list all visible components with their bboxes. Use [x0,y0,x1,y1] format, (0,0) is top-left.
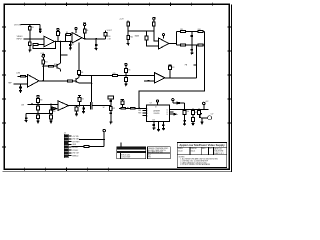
svg-text:R33: R33 [53,111,56,113]
ground [201,122,204,124]
resistor R22 [43,65,48,67]
IC bottom pin capacitor C15 [162,122,165,129]
ground [75,114,78,116]
pin 8 [65,155,68,157]
resistor R15 [180,30,185,32]
pin 1 [65,135,68,137]
wire U1B output [82,38,106,39]
svg-text:R26: R26 [128,70,131,72]
svg-text:+12V: +12V [205,101,209,103]
resistor R6 [83,29,86,33]
wire [24,38,45,40]
svg-text:LM1889: LM1889 [153,111,160,113]
svg-text:C2: C2 [72,44,74,46]
wire long video bus [79,75,155,77]
wire [127,39,129,43]
resistor R31 [37,104,39,106]
ground [127,44,130,46]
wire bottom edge [176,44,204,46]
IC bottom pin capacitor C14 [153,122,156,128]
pin 4 [65,143,68,145]
svg-text:C17: C17 [211,114,214,116]
svg-text:P/N: P/N [148,156,151,158]
resistor R40 [121,107,126,109]
power V5 [163,34,165,36]
svg-text:5 6 8: 5 6 8 [152,119,155,121]
capacitor C9 [25,114,28,121]
ground [19,91,22,93]
resistor R44 [192,109,194,110]
resistor R21 [42,60,45,64]
pin 7 [65,152,68,154]
wire [127,26,129,36]
wire [154,26,159,41]
border ticks left [2,27,6,147]
wire [127,21,129,22]
wire rail2 [26,113,51,115]
ground [124,84,127,86]
wire [18,75,21,77]
svg-text:R24: R24 [81,72,84,74]
svg-text:RF2: RF2 [138,113,141,115]
resistor R26 [125,68,128,72]
resistor R33 [50,104,52,110]
ground [37,121,40,123]
wire U1 output [55,41,73,43]
svg-text:C ECO 0587: C ECO 0587 [121,157,130,159]
junction [37,104,39,106]
revision table [117,147,146,159]
capacitor C7 into U5 [144,80,154,82]
resistor R25 series on bus [112,75,117,77]
parts note box [148,147,171,159]
resistor R35 pullup [78,96,81,98]
resistor R46 [198,109,200,110]
wire pin2 to power [79,138,104,140]
resistor R17 [180,44,185,46]
op-amp U5 [155,73,165,83]
svg-text:R45: R45 [195,112,198,114]
svg-text:UNLESS OTHERWISE SPEC.: UNLESS OTHERWISE SPEC. [148,148,169,150]
svg-text:VID GND: VID GND [72,139,80,141]
svg-text:+5V VID: +5V VID [72,136,79,138]
ground [50,121,53,123]
junction [43,65,45,67]
resistor R23 [68,80,73,82]
wire bus [128,30,154,32]
svg-text:R6: R6 [86,30,88,32]
power V14 [103,129,105,131]
power V1 [57,28,59,30]
title block [177,142,227,167]
resistor R11 [127,22,130,26]
svg-text:R16: R16 [198,29,201,31]
feedback box network [176,31,204,44]
svg-text:R5: R5 [66,32,68,34]
resistor R2 [28,42,31,46]
resistor R43 [184,109,186,110]
ground [39,31,41,34]
svg-text:R25: R25 [113,73,116,75]
capacitor C2 [69,42,72,49]
IC left pins [143,111,147,116]
junction [184,109,186,111]
svg-text:RF1: RF1 [138,110,141,112]
svg-text:NOTES:: NOTES: [179,157,185,159]
junction [60,41,62,43]
wire [73,80,77,82]
power V4 [153,18,155,20]
svg-text:SH 1: SH 1 [209,148,212,150]
capacitor C12 [110,99,113,106]
resistor R14 [146,31,148,36]
power arrow with resistor R42 [121,100,124,101]
resistor R13 [152,22,155,26]
wire top edge [176,30,204,32]
pin 5 [65,146,68,148]
diode D1 [173,102,177,104]
op-amp U6 [58,101,68,110]
junction [29,24,31,26]
buffer wedge [51,107,57,110]
revision table stub [120,142,122,147]
wire Q2 emitter to bus [79,82,91,84]
IC bottom pin ground [158,122,160,130]
paper edge bottom [3,171,232,173]
ground [183,124,186,126]
svg-text:CRT RET: CRT RET [72,141,79,143]
svg-text:R22: R22 [54,64,57,66]
wire U4 output [39,80,68,82]
transistor Q2 [75,78,77,83]
junction [153,30,155,32]
wire B long return [139,45,204,109]
IC top pin power V11 [157,100,159,102]
resistor R12 [127,36,130,40]
capacitor C16 [183,114,186,123]
resistor R45 [192,114,194,117]
sheet border [4,4,229,169]
power V8 [125,63,127,65]
junction [55,41,57,43]
junction [78,75,80,77]
op-amp U4 [28,75,39,87]
resistor R34 [50,114,52,115]
pin 3 [65,141,68,143]
wire U6 output [69,105,91,107]
resistor R41 [131,107,136,109]
junction [84,38,86,40]
svg-text:VID OUT: VID OUT [72,153,79,155]
svg-text:R12: R12 [130,36,133,38]
resistor R7 [105,36,107,39]
svg-text:R4: R4 [59,33,61,35]
wire U3 output [169,43,177,45]
svg-text:DWG NO: DWG NO [191,148,198,150]
wire vertical drop [91,76,93,102]
border ticks bottom [25,168,108,171]
svg-text:062-01: 062-01 [191,150,196,152]
power V2 [75,28,77,30]
capacitor C11 big series [90,102,92,109]
resistor R1 [28,26,31,30]
svg-text:B ECO 0241: B ECO 0241 [121,154,130,156]
IC right pins [170,109,177,114]
svg-text:R1: R1 [32,27,34,29]
resistor R36 [75,106,77,108]
svg-text:INPUT: INPUT [17,38,24,40]
resistor R4 [57,32,60,36]
capacitor C10 [82,106,85,112]
svg-text:R10: R10 [108,36,111,38]
junction [50,113,52,115]
svg-text:R30: R30 [40,100,43,102]
wire feedback loop [33,42,55,49]
svg-text:R37: R37 [112,108,115,110]
ground [192,123,195,125]
svg-text:HSYNC: HSYNC [72,147,79,149]
wire A up to box [195,45,197,78]
wire [147,40,159,46]
border ticks right [228,27,231,123]
resistor R50 [84,146,89,148]
svg-text:VOUT: VOUT [107,30,113,32]
transistor Q1 [56,64,58,69]
power V13 [203,102,205,104]
wire [21,24,41,26]
capacitor C1 [39,25,42,32]
svg-text:LUM: LUM [16,72,20,74]
wire rail1 with series capacitor C8 [27,103,58,105]
wire [29,25,31,39]
wire [13,83,27,85]
resistor R37 [109,107,112,111]
power V12 [172,99,174,101]
resistor R5 series [65,35,67,42]
junction [127,108,129,110]
wire U5 output [165,77,197,79]
svg-text:051-03: 051-03 [178,150,183,152]
transistor Q3 [199,114,201,118]
paper edge right [230,5,232,172]
junction [127,30,129,32]
svg-text:C16: C16 [186,111,189,113]
net arrow [174,113,176,115]
wire return [89,146,104,148]
ground [25,120,28,122]
op-amp U1B [72,33,82,44]
svg-text:VID MOD: VID MOD [154,113,160,115]
resistor R27 [125,76,127,78]
svg-text:R35: R35 [81,99,84,101]
capacitor C17 electrolytic [202,117,208,119]
svg-text:R15: R15 [180,29,183,31]
svg-text:SHEET 1 OF 1: SHEET 1 OF 1 [214,153,223,155]
wire stub [61,54,68,56]
capacitor C6 [19,84,22,90]
svg-text:R21: R21 [45,62,48,64]
power V7 [42,55,44,57]
power V3 [83,22,86,24]
capacitor C13 [110,111,113,123]
pin 2 [65,138,68,140]
junction [125,75,127,77]
resistor R16 [198,30,203,32]
ground [190,53,193,55]
svg-text:Apple Lisa TelePower Video Sup: Apple Lisa TelePower Video Supply [179,143,225,147]
capacitor C3 [95,39,98,48]
wire to Q1 collector [60,42,62,64]
wire [38,44,44,46]
wire [25,75,27,77]
ground [95,48,98,50]
power V9 with resistor R28 [169,65,172,66]
resistor R18 [198,44,203,46]
wire [184,103,186,109]
capacitor C4 mid [191,31,194,44]
pin 6 [65,149,68,151]
ground [109,122,112,124]
op-amp U1A [44,36,55,46]
resistor R3 [33,44,38,46]
svg-text:R28: R28 [172,67,175,69]
wire [29,39,31,50]
wire op-amp bottom pin down [78,43,80,71]
svg-text:REV C: REV C [202,148,206,150]
junction [37,113,39,115]
wire into IC [119,107,147,109]
resistor R30 [37,98,40,102]
power rail right cluster [176,108,208,110]
ground [28,50,31,52]
svg-text:CSYNC: CSYNC [72,150,79,152]
power V10 [37,95,39,97]
wire [57,35,59,41]
IC U7 [147,105,170,122]
resistor R32 [37,115,40,119]
junction [57,41,59,43]
ground [152,128,155,130]
ground [82,112,85,114]
wire [42,64,44,81]
capacitor C5 below box [191,45,194,53]
svg-text:SHIELD: SHIELD [72,155,79,157]
svg-text:U7: U7 [150,102,152,104]
network chain label box [108,96,113,99]
resistor R20 [21,75,26,77]
junction [169,77,171,79]
junction [29,38,31,40]
ground [69,48,72,50]
border ticks top [25,3,212,7]
resistor R24 Q2 collector [78,75,80,78]
op-amp U3 [159,38,169,49]
